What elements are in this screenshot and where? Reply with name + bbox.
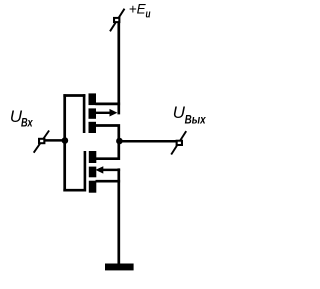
VT1 source lead (96, 103, 121, 106)
junction: input node (62, 137, 69, 144)
VT1 channel segment: drain region (89, 122, 97, 133)
output terminal Uвых (171, 131, 186, 154)
transistor VT1 p-channel (upper) (84, 93, 120, 133)
wire: VT1 drain to output node (96, 126, 119, 142)
VT1 channel segment: substrate region (89, 108, 97, 118)
ground (105, 264, 134, 271)
svg-text:Вых: Вых (185, 112, 207, 126)
VT1 gate electrode (83, 94, 86, 133)
VT2 gate electrode (84, 151, 87, 192)
VT1 channel segment: source region (89, 93, 97, 105)
wire: common gate input line (63, 94, 66, 191)
junction: output node (116, 138, 123, 145)
label +Eи (129, 2, 151, 21)
input terminal Uвх (34, 131, 49, 153)
transistor VT2 n-channel (lower) (85, 151, 120, 193)
VT1 substrate lead with p-channel arrow (96, 112, 112, 114)
label Uвых (173, 103, 207, 126)
wire: output node to VT2 drain (96, 141, 119, 159)
VT2 substrate lead with n-channel arrow (100, 169, 120, 172)
VT2 source lead (96, 180, 121, 183)
VT2 channel segment: source region (89, 181, 97, 193)
power terminal +Eи (110, 9, 125, 32)
label Uвх (10, 107, 34, 130)
svg-text:+E: +E (129, 2, 147, 17)
wire: VT2 substrate and source to ground (117, 168, 120, 264)
VT2 channel segment: drain region (89, 151, 97, 163)
svg-text:Вх: Вх (21, 116, 34, 130)
svg-text:и: и (146, 8, 151, 20)
wire: common gate bus top (63, 94, 85, 97)
wire: output node to output terminal (119, 140, 176, 143)
wire: input terminal to gate node (45, 139, 65, 142)
wire: +Eи down to VT1 source and substrate (117, 23, 120, 115)
wire: common gate bus bottom (63, 189, 86, 192)
VT2 channel segment: substrate region (89, 167, 97, 178)
